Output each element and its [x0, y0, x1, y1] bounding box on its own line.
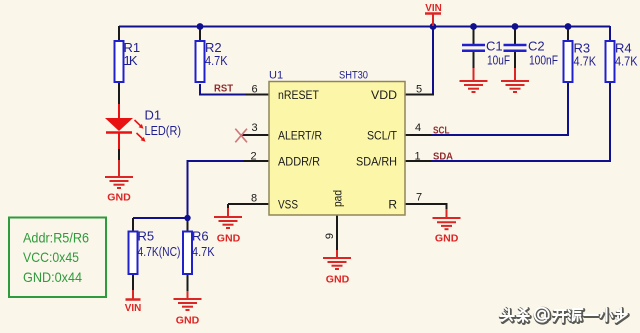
- svg-text:7: 7: [416, 192, 422, 204]
- svg-text:ALERT/R: ALERT/R: [278, 128, 322, 142]
- svg-text:GND: GND: [326, 274, 350, 286]
- svg-text:SCL/T: SCL/T: [367, 128, 398, 142]
- svg-text:RST: RST: [214, 83, 234, 95]
- svg-text:1K: 1K: [124, 53, 138, 68]
- svg-text:6: 6: [251, 84, 257, 96]
- svg-text:R: R: [388, 197, 397, 211]
- svg-text:Addr:R5/R6: Addr:R5/R6: [23, 230, 89, 246]
- svg-text:C1: C1: [486, 39, 503, 54]
- svg-text:GND: GND: [107, 191, 131, 203]
- svg-text:9: 9: [324, 233, 336, 239]
- svg-text:8: 8: [251, 193, 257, 205]
- svg-text:GND: GND: [435, 232, 459, 244]
- svg-text:ADDR/R: ADDR/R: [278, 154, 320, 168]
- svg-text:5: 5: [416, 84, 422, 96]
- svg-text:4.7K: 4.7K: [205, 53, 228, 68]
- svg-text:U1: U1: [269, 70, 283, 82]
- svg-text:GND: GND: [217, 233, 241, 245]
- svg-text:4.7K: 4.7K: [615, 54, 638, 69]
- svg-text:4.7K: 4.7K: [574, 54, 597, 69]
- svg-text:GND:0x44: GND:0x44: [23, 269, 82, 285]
- svg-text:C2: C2: [528, 39, 545, 54]
- svg-text:1: 1: [414, 151, 420, 163]
- svg-text:SHT30: SHT30: [339, 70, 368, 82]
- svg-text:pad: pad: [331, 190, 345, 207]
- svg-text:R6: R6: [192, 229, 209, 244]
- svg-text:GND: GND: [176, 315, 200, 327]
- svg-text:SDA: SDA: [433, 151, 453, 163]
- svg-text:LED(R): LED(R): [145, 123, 182, 138]
- svg-text:10uF: 10uF: [487, 53, 510, 68]
- svg-text:R5: R5: [138, 229, 155, 244]
- svg-text:3: 3: [251, 122, 257, 134]
- svg-text:VIN: VIN: [425, 2, 442, 14]
- svg-text:VIN: VIN: [125, 302, 142, 314]
- svg-text:D1: D1: [145, 107, 162, 122]
- svg-text:VSS: VSS: [278, 197, 298, 211]
- svg-text:nRESET: nRESET: [278, 88, 320, 102]
- svg-text:VDD: VDD: [371, 88, 397, 102]
- svg-text:4.7K(NC): 4.7K(NC): [138, 244, 181, 259]
- svg-text:2: 2: [250, 151, 256, 163]
- svg-text:SDA/RH: SDA/RH: [356, 154, 397, 168]
- svg-text:SCL: SCL: [433, 125, 450, 137]
- svg-text:VCC:0x45: VCC:0x45: [23, 249, 79, 265]
- svg-text:100nF: 100nF: [529, 53, 558, 68]
- svg-text:4: 4: [415, 122, 421, 134]
- svg-text:4.7K: 4.7K: [192, 244, 215, 259]
